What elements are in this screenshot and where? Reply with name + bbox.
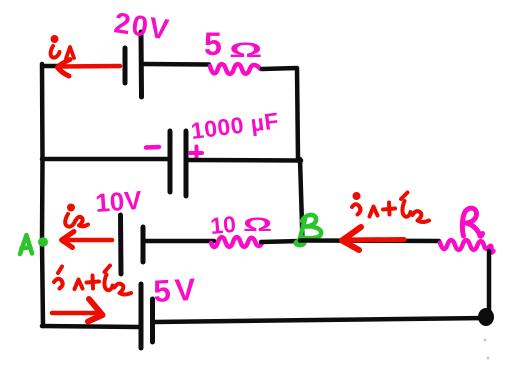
current arrow i2 (pointing left toward node A) [62,232,113,248]
node B dot [294,239,307,248]
battery V1 (20V) negative plate (short, left) [123,48,128,83]
junction dot (bottom-right) [478,308,494,326]
wire: V1 positive plate to resistor R1 [144,62,209,67]
wire: R1 to top-right corner and down [262,68,298,159]
resistor R1 squiggle (5 ohm, magenta) [210,64,261,74]
label i1+i2 (bottom left) [54,266,131,295]
polarity label plus (C1) [190,147,202,160]
capacitor C1 left plate [168,131,173,192]
label B (green) [300,215,321,238]
wire: left vertical bus (top corner down to bottom-left corner) [42,64,43,326]
resistor R2 squiggle (10 ohm, magenta) [211,237,262,247]
wire: bottom bus left (left bus corner to V3 positive plate) [42,326,139,327]
faint stray mark 2 [487,357,490,360]
svg-text:1000 µF: 1000 µF [189,107,280,144]
battery V2 (10V) positive plate (tall, left) [118,215,124,274]
node A dot [38,237,48,247]
wire: R2 to node B [261,241,300,242]
label A (green) [20,235,32,254]
wire: right vertical from mid junction down to node B [300,159,303,241]
wire: node B to resistor R3 [300,238,439,243]
resistor R3 squiggle (R, magenta) [440,240,494,252]
wire: top-left stub from corner toward V1 [43,64,60,69]
battery V3 (5V) negative plate (short, right) [150,299,155,342]
faint stray mark 1 [484,339,487,342]
svg-text:20V: 20V [112,7,172,46]
label i1 [51,35,75,59]
label i2 [65,204,88,227]
battery V3 (5V) positive plate (tall, left) [139,284,144,348]
wire: R3 down to bottom-right junction [487,251,492,318]
svg-text:Ω: Ω [229,38,262,61]
svg-text:10V: 10V [94,185,143,218]
current arrow i1 (pointing left along top wire) [58,60,121,77]
svg-text:5: 5 [204,26,222,62]
current arrow i1+i2 (bottom left, pointing right) [52,299,103,322]
battery V1 (20V) positive plate (tall, right) [139,32,145,97]
polarity label minus (C1) [146,145,159,150]
wire: middle bus from left bus to capacitor C1 [42,157,168,162]
svg-text:5V: 5V [153,272,201,309]
value label R (magenta) [462,208,482,236]
wire: bottom bus right (from V3 negative plate to junction) [154,318,487,322]
wire: capacitor C1 right plate to junction below R1 [188,158,301,163]
label i1+i2 (top right) [352,192,429,222]
current arrow i1+i2 (pointing left toward node B) [342,227,404,250]
svg-text:Ω: Ω [243,214,272,235]
svg-text:10: 10 [209,211,237,239]
capacitor C1 right plate [184,131,189,196]
wire: V2 negative plate to resistor R2 [145,239,214,244]
battery V2 (10V) negative plate (short, right) [141,227,146,262]
